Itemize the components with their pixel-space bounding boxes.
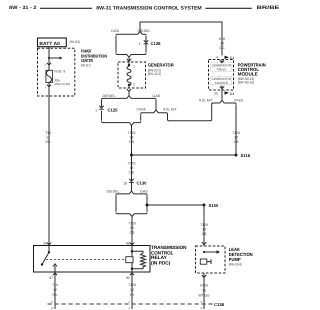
svg-text:FUSE: FUSE bbox=[54, 70, 62, 74]
svg-text:1: 1 bbox=[95, 108, 97, 112]
svg-text:18: 18 bbox=[130, 166, 134, 170]
svg-text:18: 18 bbox=[220, 42, 224, 46]
split DIESEL/GAS below C130 bbox=[107, 182, 149, 195]
svg-text:BR/BE: BR/BE bbox=[257, 5, 281, 11]
battery BATT A0 bbox=[38, 38, 81, 47]
svg-text:18: 18 bbox=[123, 181, 127, 185]
generator G bbox=[118, 62, 174, 88]
svg-text:DIESEL: DIESEL bbox=[103, 94, 116, 98]
wire 8.0L branch to PCM branch bbox=[168, 103, 212, 120]
svg-text:K106: K106 bbox=[200, 284, 208, 288]
wire label K20 18 DG bbox=[219, 37, 225, 50]
svg-text:T120: T120 bbox=[200, 223, 208, 227]
svg-text:CENTER: CENTER bbox=[81, 58, 93, 63]
connector C130 bbox=[123, 179, 147, 186]
svg-text:T120: T120 bbox=[128, 131, 136, 135]
LDP terminal top bbox=[202, 242, 206, 244]
svg-text:(8W-10-25): (8W-10-25) bbox=[54, 82, 70, 86]
splice S150 bbox=[203, 203, 219, 208]
svg-text:DG: DG bbox=[219, 46, 224, 50]
svg-text:GAS: GAS bbox=[152, 94, 161, 98]
wire label K106 18 WT/DG bbox=[198, 273, 210, 309]
svg-text:30: 30 bbox=[43, 241, 47, 245]
svg-text:GENERATOR: GENERATOR bbox=[148, 63, 175, 68]
svg-text:86: 86 bbox=[126, 241, 130, 245]
split OTHER / 8.0L M/T bbox=[136, 108, 176, 115]
fuse terminal bottom bbox=[47, 85, 51, 87]
wire gas branch bbox=[115, 36, 117, 53]
svg-text:C125: C125 bbox=[108, 108, 119, 113]
svg-text:RD: RD bbox=[53, 293, 58, 297]
split 8.0L M/T / OTHER below PCM bbox=[199, 99, 243, 105]
splice S116 bbox=[235, 153, 251, 158]
svg-text:C1: C1 bbox=[230, 92, 234, 96]
svg-text:85: 85 bbox=[126, 276, 130, 280]
svg-text:8.0L M/T: 8.0L M/T bbox=[163, 108, 177, 112]
svg-text:(8W-30-6): (8W-30-6) bbox=[229, 262, 242, 266]
svg-text:T120: T120 bbox=[128, 162, 136, 166]
svg-text:C130: C130 bbox=[137, 181, 148, 186]
wire to S150 bbox=[147, 204, 204, 206]
header rule left bbox=[40, 7, 92, 9]
svg-text:(8W-20-3): (8W-20-3) bbox=[148, 72, 161, 76]
wire relay 87 output bbox=[52, 272, 58, 309]
split DIESEL/GAS below generator bbox=[102, 91, 162, 99]
merge to relay coil wire bbox=[116, 213, 147, 219]
svg-text:T120: T120 bbox=[128, 283, 136, 287]
header title bbox=[96, 5, 201, 11]
connector C125 bbox=[95, 106, 118, 113]
wire diesel below C125 bbox=[101, 111, 103, 121]
svg-text:18: 18 bbox=[130, 226, 134, 230]
svg-text:DB: DB bbox=[202, 232, 207, 236]
wire diesel branch bbox=[115, 196, 117, 212]
leak detection pump bbox=[196, 246, 254, 273]
wire batt to relay bbox=[48, 47, 50, 246]
wire gas branch bbox=[146, 196, 148, 212]
svg-text:B: B bbox=[45, 63, 47, 66]
svg-text:DB: DB bbox=[234, 140, 239, 144]
svg-text:DB: DB bbox=[129, 140, 134, 144]
wire to S116 bbox=[132, 154, 237, 156]
wire OTHER branch bbox=[140, 114, 142, 120]
svg-text:T13: T13 bbox=[45, 131, 51, 135]
svg-text:25: 25 bbox=[214, 92, 218, 96]
svg-text:8W - 31 - 2: 8W - 31 - 2 bbox=[9, 5, 37, 11]
svg-text:T120: T120 bbox=[128, 222, 136, 226]
svg-text:C128: C128 bbox=[151, 41, 162, 46]
merge to single wire bbox=[102, 121, 141, 127]
connector C138 bottom bbox=[48, 300, 225, 310]
svg-text:18: 18 bbox=[130, 136, 134, 140]
generator terminal bottom bbox=[127, 89, 131, 91]
svg-text:87: 87 bbox=[49, 276, 53, 280]
header BR/BE bbox=[257, 5, 281, 11]
relay coil bbox=[126, 246, 146, 273]
svg-text:18: 18 bbox=[202, 289, 206, 293]
svg-text:8W-31 TRANSMISSION CONTROL SYS: 8W-31 TRANSMISSION CONTROL SYSTEM bbox=[96, 5, 201, 11]
svg-text:PK: PK bbox=[130, 293, 135, 297]
svg-text:1: 1 bbox=[133, 65, 135, 69]
svg-text:9: 9 bbox=[63, 70, 65, 74]
svg-text:1: 1 bbox=[139, 42, 141, 46]
PCM connector C1 top bbox=[216, 56, 234, 61]
svg-text:C138: C138 bbox=[214, 302, 225, 307]
generator terminal top bbox=[127, 59, 131, 61]
wire relay 85 output bbox=[128, 272, 136, 309]
svg-text:(8W-30-26): (8W-30-26) bbox=[238, 80, 255, 84]
wire OTHER branch with label T120 18 DB bbox=[232, 105, 240, 155]
svg-text:DB: DB bbox=[129, 171, 134, 175]
svg-text:OTHER: OTHER bbox=[136, 108, 146, 112]
wire label T120 18 DB (mid) bbox=[128, 125, 136, 181]
splice junction on gas branch bbox=[146, 204, 149, 207]
merge into generator bbox=[116, 53, 146, 62]
LDP terminal bottom bbox=[202, 275, 206, 277]
wire gas branch down bbox=[155, 100, 157, 110]
wire top run PCM field to generator bbox=[140, 22, 222, 56]
svg-text:BATT A0: BATT A0 bbox=[39, 41, 60, 46]
wire label T13 12 RD bbox=[45, 131, 51, 144]
wire below PCM bbox=[221, 90, 223, 100]
svg-text:18: 18 bbox=[202, 228, 206, 232]
svg-text:(8W-10-8): (8W-10-8) bbox=[70, 40, 81, 44]
svg-text:DIESEL: DIESEL bbox=[138, 29, 151, 33]
svg-text:(IN PDC): (IN PDC) bbox=[151, 260, 171, 265]
header page number bbox=[9, 5, 37, 11]
header rule right bbox=[205, 7, 251, 9]
svg-text:SOURCE: SOURCE bbox=[215, 81, 228, 85]
transmission control relay bbox=[34, 245, 188, 272]
svg-text:8.0L M/T: 8.0L M/T bbox=[199, 99, 213, 103]
svg-text:(8W-10-2): (8W-10-2) bbox=[81, 64, 91, 68]
relay armature link bbox=[46, 259, 126, 261]
fuse F9 30A bbox=[46, 70, 70, 86]
powertrain control module bbox=[209, 60, 267, 91]
svg-text:22: 22 bbox=[130, 288, 134, 292]
svg-text:2: 2 bbox=[133, 83, 135, 87]
connector C128 bbox=[139, 40, 162, 46]
relay terminal marks bbox=[47, 243, 134, 245]
svg-text:18: 18 bbox=[234, 136, 238, 140]
splice junction on mid wire bbox=[130, 154, 133, 157]
svg-text:GAS: GAS bbox=[140, 189, 149, 193]
wire S150 to LDP bbox=[200, 205, 208, 246]
svg-text:12: 12 bbox=[53, 288, 57, 292]
svg-text:S150: S150 bbox=[209, 203, 219, 208]
svg-text:DB: DB bbox=[130, 231, 135, 235]
svg-text:WT/DG: WT/DG bbox=[198, 294, 210, 298]
svg-text:T16: T16 bbox=[52, 283, 58, 287]
svg-text:FIELD: FIELD bbox=[217, 67, 227, 71]
feed arrow inside PDC bbox=[48, 57, 63, 60]
svg-text:PUMP: PUMP bbox=[229, 257, 241, 262]
relay switch bbox=[41, 246, 57, 273]
svg-text:MODULE: MODULE bbox=[238, 72, 258, 77]
svg-text:S116: S116 bbox=[241, 153, 251, 158]
split GAS/DIESEL top bbox=[111, 29, 151, 36]
wire diesel to C125 bbox=[101, 100, 103, 108]
power distribution center box bbox=[38, 48, 108, 96]
svg-text:OTHER: OTHER bbox=[234, 99, 244, 103]
PCM connector C1 bottom bbox=[214, 91, 234, 96]
wire diesel branch bbox=[145, 36, 147, 53]
fuse terminal top bbox=[47, 63, 51, 65]
wire label T120 18 DB (to relay) bbox=[128, 216, 136, 246]
svg-text:DIESEL: DIESEL bbox=[107, 189, 120, 193]
svg-text:12: 12 bbox=[46, 136, 50, 140]
svg-text:K20: K20 bbox=[219, 37, 225, 41]
svg-text:GAS: GAS bbox=[111, 29, 120, 33]
svg-text:RD: RD bbox=[46, 140, 51, 144]
svg-text:T120: T120 bbox=[232, 131, 240, 135]
